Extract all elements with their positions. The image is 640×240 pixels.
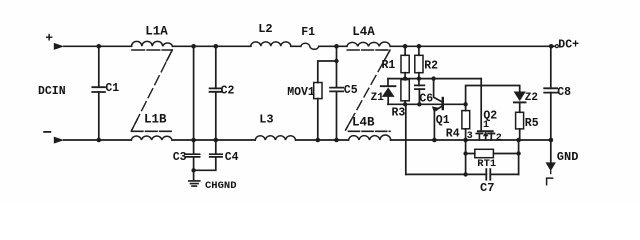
svg-text:R4: R4 xyxy=(446,128,460,141)
svg-text:DCIN: DCIN xyxy=(38,85,66,98)
svg-text:3: 3 xyxy=(467,131,473,142)
svg-text:RT1: RT1 xyxy=(477,158,496,170)
svg-text:L4B: L4B xyxy=(352,116,375,130)
svg-text:L3: L3 xyxy=(259,113,273,127)
svg-text:R1: R1 xyxy=(382,59,396,72)
svg-text:C1: C1 xyxy=(105,82,119,95)
svg-text:C3: C3 xyxy=(173,151,187,164)
svg-text:C5: C5 xyxy=(344,84,358,97)
svg-text:GND: GND xyxy=(557,150,579,164)
svg-text:+: + xyxy=(45,30,53,45)
svg-text:C2: C2 xyxy=(221,84,235,97)
svg-text:Z2: Z2 xyxy=(525,92,538,104)
svg-text:L2: L2 xyxy=(258,22,272,36)
svg-text:R2: R2 xyxy=(424,60,438,73)
svg-text:Q1: Q1 xyxy=(436,114,450,127)
svg-text:C8: C8 xyxy=(557,86,571,99)
svg-text:F1: F1 xyxy=(301,26,315,39)
svg-text:L1A: L1A xyxy=(145,24,168,38)
svg-text:L1B: L1B xyxy=(144,112,167,126)
svg-text:C6: C6 xyxy=(419,92,433,105)
svg-text:2: 2 xyxy=(496,133,502,144)
svg-text:L4A: L4A xyxy=(352,25,375,39)
svg-text:MOV1: MOV1 xyxy=(287,86,315,99)
svg-text:Z1: Z1 xyxy=(371,92,385,104)
svg-text:R5: R5 xyxy=(525,117,539,130)
svg-text:DC+: DC+ xyxy=(558,38,579,51)
svg-text:CHGND: CHGND xyxy=(205,180,237,192)
svg-text:C7: C7 xyxy=(480,181,494,195)
svg-text:1: 1 xyxy=(483,120,489,131)
svg-text:C4: C4 xyxy=(225,151,239,164)
svg-text:R3: R3 xyxy=(392,106,406,119)
